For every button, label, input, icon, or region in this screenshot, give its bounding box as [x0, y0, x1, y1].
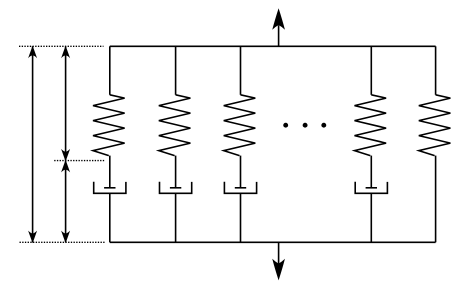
damper c2 piston plate: [170, 187, 181, 189]
spring k4: [355, 95, 387, 156]
wire: branch 4 bottom stub: [370, 193, 372, 242]
wire: branch 3 bottom stub: [240, 193, 242, 242]
extension line (dotted, top): [19, 45, 104, 47]
damper c4 (dashpot cup): [355, 182, 387, 194]
ellipsis dots (continuation): [283, 123, 326, 128]
wire: branch 2 bottom stub: [175, 193, 177, 242]
wire: piston rod of damper c3: [240, 156, 242, 188]
damper c4 piston plate: [366, 187, 377, 189]
dimension line: lower segment (inner, middle line to bottom rail): [61, 160, 70, 243]
damper c1 (dashpot cup): [94, 182, 126, 194]
force arrow F (bottom, downward): [272, 242, 285, 280]
damper c2 (dashpot cup): [160, 182, 192, 194]
spring k3: [224, 95, 256, 156]
wire: branch 2 top stub: [175, 46, 177, 95]
extension line (dotted, bottom): [20, 241, 105, 243]
spring k2: [159, 95, 191, 156]
wire: branch 1 bottom stub: [109, 193, 111, 242]
wire: equilibrium branch top stub: [435, 46, 437, 95]
extension line (dotted, middle): [54, 160, 104, 162]
wire: branch 1 top stub: [109, 46, 111, 95]
damper c3 (dashpot cup): [224, 182, 256, 194]
wire: piston rod of damper c4: [370, 156, 372, 188]
damper c3 piston plate: [235, 187, 246, 189]
wire: piston rod of damper c1: [109, 156, 111, 188]
wire: bottom rail: [110, 241, 436, 243]
wire: equilibrium branch bottom stub: [435, 156, 437, 243]
wire: branch 3 top stub: [240, 46, 242, 95]
damper c1 piston plate: [104, 187, 115, 189]
spring k_inf (equilibrium spring): [419, 95, 451, 156]
spring k1: [93, 95, 125, 156]
wire: top rail: [110, 45, 436, 47]
force arrow F (top, upward): [272, 8, 285, 46]
dimension line: upper segment (inner, top rail to middle line): [61, 46, 70, 162]
wire: branch 4 top stub: [370, 46, 372, 95]
wire: piston rod of damper c2: [175, 156, 177, 188]
dimension line: total height (outer, double-headed): [28, 46, 37, 244]
